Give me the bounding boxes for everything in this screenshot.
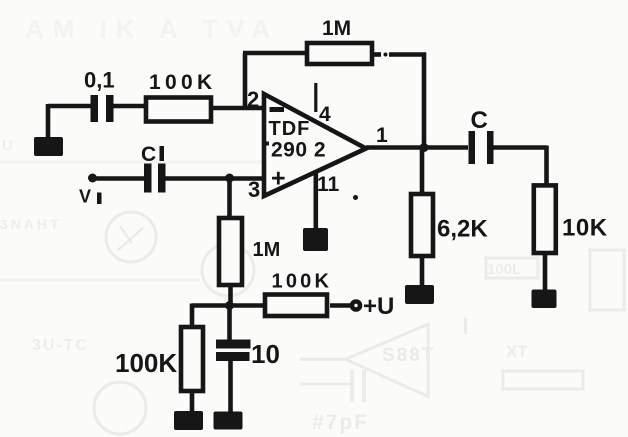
wire 100K left to ground — [190, 391, 195, 413]
svg-text:XT: XT — [506, 342, 528, 361]
label 100K (left) — [115, 348, 177, 378]
ground (10K) — [532, 290, 557, 309]
stray dot artifact — [353, 195, 358, 200]
node output junction — [420, 143, 429, 152]
svg-text:3U-TC: 3U-TC — [32, 337, 89, 354]
svg-text:6,2K: 6,2K — [437, 216, 488, 243]
wire node down to cap 10 — [227, 306, 232, 341]
label 1M (feedback) — [322, 17, 351, 40]
svg-text:100K: 100K — [272, 271, 333, 293]
resistor 1M (feedback) — [307, 43, 372, 64]
label 6,2K — [437, 216, 488, 243]
wire 100K to +U terminal — [330, 303, 352, 308]
label C1 — [141, 143, 164, 166]
wire node left — [192, 303, 231, 308]
resistor 100K (left) — [181, 327, 203, 391]
label pin 3 — [248, 177, 260, 202]
op-amp U1 TDF2902 — [264, 94, 366, 196]
node pin-3 junction — [225, 174, 234, 183]
svg-text:+U: +U — [363, 293, 394, 320]
wire C to right corner — [494, 145, 547, 150]
svg-text:1M: 1M — [253, 239, 281, 261]
svg-text:2: 2 — [247, 87, 259, 112]
svg-text:U: U — [2, 137, 13, 154]
svg-text:+: + — [271, 165, 286, 193]
label 10 — [251, 339, 280, 369]
svg-text:100K: 100K — [115, 348, 177, 378]
svg-text:4: 4 — [319, 103, 331, 126]
label 10K — [562, 215, 608, 242]
wire input left horizontal — [48, 104, 91, 109]
ground (6,2K) — [405, 285, 434, 304]
svg-text:0,1: 0,1 — [84, 68, 115, 93]
ground (cap 10) — [214, 412, 243, 430]
label 1M (bias) — [253, 239, 281, 261]
capacitor 10 — [216, 340, 251, 362]
wire output horizontal — [366, 145, 468, 150]
capacitor 0,1 — [91, 95, 114, 122]
label TDF — [269, 118, 311, 140]
wire node right to 100K — [230, 303, 265, 308]
ground (input left) — [34, 137, 63, 156]
svg-text:#7pF: #7pF — [312, 411, 369, 434]
wire feedback right horizontal — [389, 52, 426, 57]
capacitor C — [469, 131, 494, 164]
resistor 6,2K — [411, 194, 433, 256]
wire input left drop to ground — [46, 104, 51, 140]
svg-text:11: 11 — [317, 173, 340, 196]
svg-text:10K: 10K — [562, 215, 608, 242]
label +U — [363, 293, 394, 320]
svg-text:C: C — [141, 143, 156, 166]
label V1 — [79, 187, 102, 207]
label C — [471, 107, 488, 134]
svg-text:V: V — [79, 187, 91, 207]
label 100K (to +U) — [272, 271, 333, 293]
svg-text:S88T: S88T — [382, 345, 435, 366]
label 100K (input) — [149, 71, 216, 94]
wire feedback dash-dot — [374, 52, 381, 57]
label pin 11 — [317, 173, 340, 196]
wire V1 to C1 — [93, 176, 145, 181]
wire 6,2K to ground — [420, 256, 425, 287]
wire left drop — [190, 304, 195, 328]
minus sign (inverting input) — [270, 107, 285, 112]
svg-text:290 2: 290 2 — [271, 139, 326, 162]
label 2902 — [271, 139, 326, 162]
node bias junction — [225, 301, 234, 310]
wire junction down to 1M — [227, 178, 232, 218]
label pin 1 — [376, 124, 388, 147]
svg-text:1: 1 — [376, 124, 388, 147]
svg-text:100K: 100K — [149, 71, 216, 94]
wire R1 to pin 2 — [213, 106, 264, 111]
wire feedback dot — [384, 53, 388, 57]
node +U open terminal — [352, 302, 360, 310]
wire 10K to ground — [543, 253, 548, 291]
wire 6,2K top — [420, 148, 425, 195]
capacitor C1 — [144, 164, 166, 193]
wire feedback right vertical — [422, 53, 427, 150]
wire right corner down — [544, 146, 549, 186]
resistor 1M (bias) — [219, 218, 242, 285]
resistor 10K — [534, 185, 556, 253]
svg-text:C: C — [471, 107, 488, 134]
label 0,1 — [84, 68, 115, 93]
node V1 terminal — [88, 174, 97, 183]
label pin 2 — [247, 87, 259, 112]
svg-text:1M: 1M — [322, 17, 351, 40]
wire feedback top horizontal — [243, 51, 307, 56]
svg-text:AM IK A TVA: AM IK A TVA — [25, 14, 279, 44]
label pin 4 — [319, 103, 331, 126]
svg-text:3NAHT: 3NAHT — [0, 216, 62, 232]
svg-text:TDF: TDF — [269, 118, 311, 140]
wire cap to R1 — [114, 104, 147, 109]
wire feedback left vertical — [243, 53, 248, 110]
plus sign (non-inverting input) — [271, 165, 286, 193]
pin 4 stub — [314, 83, 317, 112]
pin 11 stub — [313, 172, 318, 229]
ground (100K left) — [174, 411, 203, 430]
wire C1 to pin 3 — [166, 176, 265, 181]
op-amp left edge tick — [262, 142, 269, 146]
svg-text:100L: 100L — [487, 261, 521, 278]
resistor 100K (input) — [146, 98, 211, 122]
svg-text:10: 10 — [251, 339, 280, 369]
resistor 100K (to +U) — [265, 295, 327, 317]
wire cap 10 to ground — [228, 361, 233, 414]
wire 1M to node row — [228, 285, 233, 307]
ground (pin 11) — [303, 228, 328, 251]
